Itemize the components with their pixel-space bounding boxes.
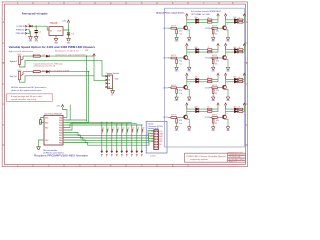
capacitor C1 (electrolytic): [35, 30, 38, 37]
ground: regulator: [54, 38, 58, 41]
svg-text:speeds smoother interacting: speeds smoother interacting: [11, 98, 37, 101]
wire: riser 7: [131, 125, 133, 150]
title block right rows: [229, 153, 245, 163]
svg-text:78L05: 78L05: [49, 22, 58, 25]
svg-text:C: C: [3, 102, 5, 106]
option socket connector: [105, 75, 112, 89]
wire: riser 4: [116, 124, 118, 150]
svg-text:Optional Power output drivers: Optional Power output drivers: [156, 12, 185, 15]
wire: drop to C1: [35, 26, 37, 30]
driver cell 4 (T4): [205, 43, 246, 72]
wire: riser 6: [126, 124, 128, 150]
pads row: [101, 150, 143, 153]
svg-text:PWR-IN: PWR-IN: [16, 30, 25, 32]
wire: regulator output: [63, 23, 69, 37]
driver cell 8 (T8): [205, 103, 246, 132]
icsp blue box: [146, 121, 167, 153]
connector X1 pins: [25, 25, 27, 34]
ground: C1 gnd: [34, 37, 38, 40]
svg-text:B: B: [246, 61, 248, 65]
ground: option socket: [111, 91, 115, 94]
+V arrow above option socket: [93, 54, 96, 57]
regulator IC1 78L05: [49, 27, 63, 36]
svg-text:place to the option socket pin: place to the option socket pins: [11, 89, 41, 92]
svg-text:B: B: [3, 61, 5, 65]
svg-text:Power input and 5-volt regulat: Power input and 5-volt regulator: [22, 13, 48, 16]
svg-text:C: C: [246, 102, 248, 106]
wire: +5V to VDD pins: [63, 105, 71, 121]
svg-text:+V PWR-IN: +V PWR-IN: [16, 26, 25, 28]
svg-text:CON1: CON1: [150, 155, 156, 157]
svg-text:A: A: [246, 20, 248, 24]
wire: mcu vss: [39, 140, 45, 147]
icsp pin labels left: [150, 131, 155, 143]
svg-text:GND: GND: [34, 41, 38, 43]
diode D6: [46, 70, 49, 73]
wire: pin rb1 riser a: [63, 119, 87, 121]
icsp connector: [154, 130, 159, 150]
wire: socket gnd: [112, 84, 114, 91]
diode D5: [46, 55, 49, 58]
ground: C2: [67, 38, 71, 41]
svg-text:A: A: [3, 20, 5, 24]
svg-text:capacity option: capacity option: [190, 158, 209, 161]
frame row letters: [3, 20, 248, 147]
wire: staircase 5: [63, 141, 151, 145]
svg-text:DAT: DAT: [159, 135, 162, 138]
wire: riser 5: [121, 124, 123, 150]
ground: connector gnd: [29, 37, 33, 40]
svg-text:RA5: RA5: [45, 116, 48, 119]
resistor R14 (mclr pullup): [40, 120, 42, 125]
riser pin marks: [102, 129, 143, 133]
svg-text:PWM LED Chaser Variable Speed: PWM LED Chaser Variable Speed: [186, 155, 226, 158]
svg-text:GND: GND: [67, 42, 71, 44]
ground: mcu: [37, 147, 41, 150]
mcu left pin wires: [40, 118, 44, 123]
icsp pin wires: [151, 131, 154, 141]
svg-text:Requires PROM4PV380-HEX firmwa: Requires PROM4PV380-HEX firmware: [34, 155, 89, 158]
wire: pin rb2 riser b: [63, 120, 89, 123]
red annotation box: [7, 94, 53, 102]
frame column ticks bottom: [33, 165, 188, 167]
mcu IC2 box: [44, 115, 63, 145]
connector X1 pin labels: [16, 26, 25, 35]
svg-text:Resistance 47-100 K Lin: Resistance 47-100 K Lin: [55, 49, 79, 52]
svg-text:Option Socket: Option Socket: [106, 72, 120, 75]
driver cell 2 (T2): [205, 14, 246, 43]
wire: riser 2: [106, 122, 108, 149]
svg-text:All links removed and 4k7 pots: All links removed and 4k7 pots wired in: [11, 86, 47, 89]
svg-text:GND: GND: [29, 41, 33, 43]
wire: pin2 to pin3 gnd join: [28, 30, 31, 37]
wire: riser 3: [111, 122, 113, 149]
junction riser2: [88, 71, 89, 72]
wire: staircase 2: [63, 133, 151, 138]
wire: pin rb0: [63, 117, 67, 119]
wire: riser 1: [101, 122, 103, 149]
riser net labels: [103, 128, 145, 130]
wire: bus line 2: [63, 124, 137, 128]
frame outer border: [2, 2, 247, 167]
wire: bus line 1: [63, 124, 142, 126]
svg-text:D: D: [3, 143, 5, 147]
svg-text:Gap Opt: Gap Opt: [10, 75, 17, 78]
frame column ticks top: [33, 2, 219, 4]
junction dots riser bus: [101, 122, 142, 126]
diode D1: [29, 25, 32, 27]
driver cell 3 (T3): [163, 43, 219, 72]
svg-text:Sheet: 1 / 1: Sheet: 1 / 1: [229, 160, 237, 163]
wire: pot2 outputs: [20, 56, 107, 123]
svg-text:RA2: RA2: [59, 141, 62, 144]
svg-text:8x Transistor channels NPN/MOS: 8x Transistor channels NPN/MOSFET: [191, 10, 222, 13]
svg-text:OPTIONAL 1x2 LED: OPTIONAL 1x2 LED: [191, 13, 211, 16]
+5V supply arrow: [67, 20, 70, 23]
svg-text:www.bakerelectronics.co.uk: www.bakerelectronics.co.uk: [229, 153, 245, 156]
wire: staircase 4: [63, 138, 151, 142]
svg-text:RA6: RA6: [45, 121, 48, 124]
svg-text:PWR-GND: PWR-GND: [16, 33, 25, 35]
driver cell 1 (T1): [163, 14, 219, 43]
frame column numbers: [17, 1, 234, 168]
mcu pin names right column: [59, 117, 62, 144]
potentiometer RV2: [18, 71, 23, 79]
wire: riser 9: [141, 125, 143, 150]
svg-text:GND: GND: [54, 42, 58, 44]
resistor R15: [33, 55, 40, 57]
title block outline: [185, 153, 246, 162]
wire: pot1 outputs: [20, 56, 107, 121]
svg-text:and R18 4k7 pots connected to: and R18 4k7 pots connected to +5V: [33, 65, 55, 68]
svg-text:Speed: Speed: [10, 61, 18, 63]
svg-text:+5V: +5V: [62, 21, 66, 23]
svg-text:Variable Speed Option for 4401: Variable Speed Option for 4401 and 4403 …: [9, 45, 96, 49]
icsp pin labels right: [159, 131, 164, 146]
wire: bus line 3: [63, 122, 132, 130]
driver cell 6 (T6): [205, 73, 246, 102]
resistor R16: [33, 71, 40, 73]
svg-text:RA7: RA7: [45, 126, 48, 129]
frame row ticks left and right: [2, 43, 247, 125]
driver cell 7 (T7): [163, 103, 219, 132]
wire: riser 8: [136, 125, 138, 150]
driver cell 5 (T5): [163, 73, 219, 102]
svg-text:A single package dual 10k pot: A single package dual 10k pot is ideal: [11, 95, 42, 98]
+5V arrow mcu: [61, 105, 63, 107]
wire: staircase 1: [63, 131, 151, 136]
wire: input row: [27, 26, 49, 30]
svg-text:GND: GND: [115, 79, 119, 81]
potentiometer RV1: [18, 56, 23, 64]
wire: regulator gnd: [55, 35, 57, 38]
frame inner border: [4, 4, 245, 164]
capacitor C2: [67, 32, 70, 38]
wire: staircase 3: [63, 136, 151, 141]
driver area outline box: [164, 8, 244, 147]
junction on input row: [36, 26, 37, 27]
junction riser1: [86, 55, 87, 56]
svg-text:Applies to boards with links f: Applies to boards with links fitted: [9, 50, 33, 53]
svg-text:D: D: [246, 143, 248, 147]
pads gnd marks: [101, 155, 143, 157]
mcu pin names left column: [45, 116, 49, 142]
